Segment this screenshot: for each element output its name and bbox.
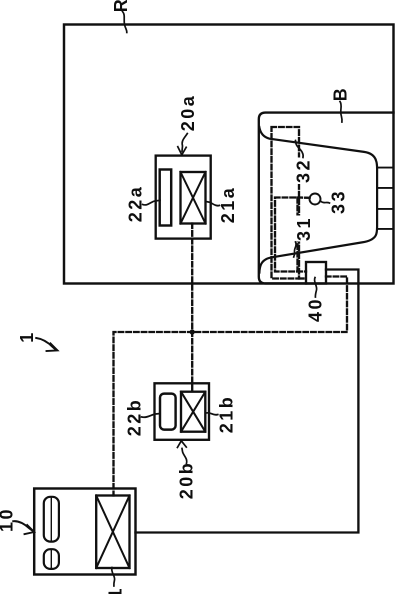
X diagonals 11 [96,496,129,569]
label 32 [294,158,312,185]
room R rectangle [64,25,394,284]
junction dot [190,329,195,334]
heat exchanger 21a [181,172,206,224]
dashed extension zone31 bottom to box 40 [298,270,307,272]
leader 22a [143,200,160,205]
svg-text:32: 32 [293,158,313,183]
svg-text:21b: 21b [216,395,236,434]
leader B [340,102,342,123]
dashed detection zone 31 [275,198,298,272]
svg-text:40: 40 [305,297,325,322]
unit box 20b [155,383,210,440]
leader 21a [206,202,220,206]
leader R [123,12,127,33]
outdoor unit box 10 [34,489,135,575]
svg-text:20a: 20a [178,94,198,132]
dashed wire 40 loop to 11 [114,277,348,496]
compressor 11 [96,496,129,569]
svg-text:21a: 21a [218,186,238,224]
svg-text:11: 11 [105,586,125,594]
heat exchanger 21b [181,392,205,432]
sensor circle 33 [310,194,321,205]
solid wire 40 to 10 [136,270,359,533]
svg-text:1: 1 [17,330,37,343]
svg-text:33: 33 [328,189,348,214]
svg-text:20b: 20b [176,461,196,500]
arrow 20a [182,134,187,152]
leader 22b [142,414,160,418]
svg-text:31: 31 [294,216,314,241]
leader 21b [206,413,218,415]
controller box 40 [306,262,326,284]
leader 40 [314,278,316,298]
dashed wire 21a to 21b [191,224,193,392]
svg-text:10: 10 [0,507,16,532]
louver short pill [44,549,59,569]
dashed detection zone 32 [272,127,300,279]
tub feet divider lines [377,167,393,169]
leader 33 [321,201,330,203]
unit box 20a [156,156,211,239]
leader 32 [296,141,304,158]
label 31 [295,216,313,242]
arrow 1 [36,338,55,350]
X diagonals 21b [181,392,205,432]
leader 31 [294,242,296,257]
svg-text:R: R [111,0,131,12]
dashed extension zone32 bottom to box 40 [299,277,306,279]
louver tall pill [44,497,59,542]
X diagonals 21a [181,172,206,224]
svg-text:B: B [330,86,350,102]
arrow 20b [182,449,187,464]
bathtub outer wall B [259,113,394,284]
bathtub inner basin [259,127,377,273]
inner element 22a [160,170,172,226]
arrow 10 [13,521,33,531]
inner element 22b [160,394,176,430]
dashed line zone31 to sensor 33 [298,196,310,199]
leader 11 [112,568,115,587]
